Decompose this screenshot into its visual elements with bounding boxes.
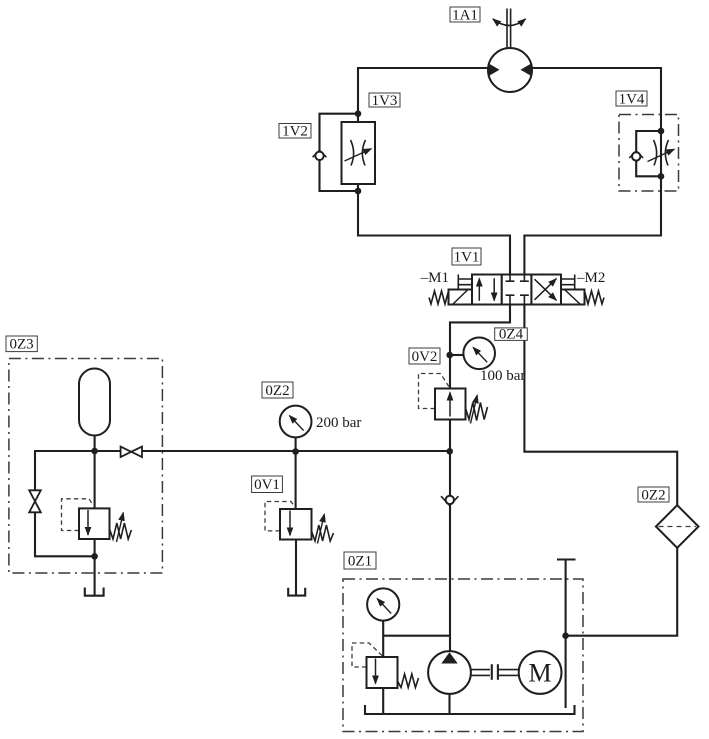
- svg-text:0Z2: 0Z2: [265, 383, 289, 399]
- svg-text:1A1: 1A1: [452, 7, 478, 23]
- svg-text:0Z3: 0Z3: [10, 337, 34, 353]
- svg-text:1V4: 1V4: [619, 91, 645, 107]
- svg-text:0Z4: 0Z4: [499, 327, 524, 343]
- svg-text:0Z1: 0Z1: [348, 554, 372, 570]
- svg-text:0V1: 0V1: [254, 477, 280, 493]
- svg-text:0Z2: 0Z2: [641, 487, 665, 503]
- svg-text:0V2: 0V2: [412, 349, 438, 365]
- svg-text:1V1: 1V1: [454, 250, 480, 266]
- svg-text:1V2: 1V2: [282, 124, 308, 140]
- svg-text:–M1: –M1: [420, 270, 449, 286]
- svg-text:100 bar: 100 bar: [480, 368, 525, 384]
- svg-text:1V3: 1V3: [372, 93, 398, 109]
- svg-text:200 bar: 200 bar: [316, 415, 361, 431]
- svg-text:–M2: –M2: [576, 270, 605, 286]
- svg-text:M: M: [529, 659, 552, 688]
